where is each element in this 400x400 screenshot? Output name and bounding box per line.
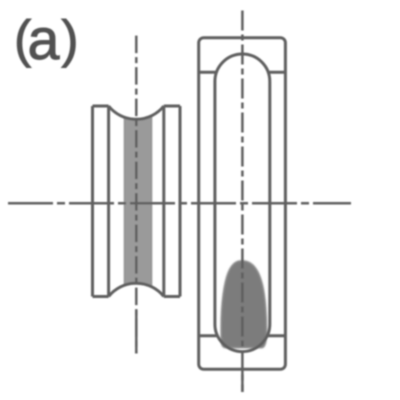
wheel outer rounded rectangle (right view)	[199, 38, 286, 370]
horizontal centerline	[8, 202, 351, 205]
sheave inner left rail	[107, 106, 110, 297]
sheave bottom-left edge	[93, 295, 109, 298]
wheel bottom-left connector line	[199, 334, 219, 337]
sheave bottom groove arc	[109, 283, 164, 296]
hub fill right edge highlight	[150, 116, 152, 287]
sheave section hub fill (left view center column)	[124, 115, 152, 287]
left centerline lower long dash	[135, 310, 138, 353]
hub fill left edge highlight	[124, 117, 126, 285]
left view vertical centerline	[135, 36, 138, 354]
sheave top-right edge	[164, 105, 180, 108]
wheel inner slot (stadium)	[215, 54, 270, 352]
contact patch blob	[221, 261, 266, 347]
wheel top-left connector line	[199, 71, 218, 74]
sheave outer right rail	[179, 106, 182, 297]
sheave top groove arc	[109, 106, 164, 119]
sheave top-left edge	[93, 105, 109, 108]
right centerline lower solid segment	[241, 368, 244, 393]
sheave outer left rail	[91, 106, 94, 297]
svg-text:): )	[61, 11, 78, 69]
label (a)	[14, 8, 79, 72]
wheel bottom-right connector line	[266, 334, 285, 337]
wheel top-right connector line	[267, 71, 285, 74]
sheave inner right rail	[162, 106, 165, 297]
svg-text:a: a	[28, 8, 60, 72]
right view vertical centerline	[241, 11, 244, 393]
sheave bottom-right edge	[164, 295, 180, 298]
